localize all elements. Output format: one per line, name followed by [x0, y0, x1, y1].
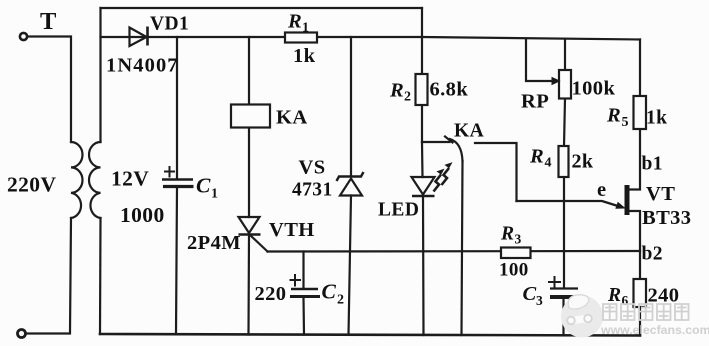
value 12V	[111, 167, 149, 191]
label R6	[607, 285, 629, 308]
svg-text:www.elecfans.com: www.elecfans.com	[600, 323, 709, 337]
wire RP wiper	[526, 39, 553, 81]
wire trigger rail	[268, 250, 641, 253]
value 220V	[7, 173, 56, 197]
svg-text:C: C	[523, 283, 537, 305]
svg-text:1k: 1k	[646, 108, 667, 129]
svg-text:RP: RP	[521, 91, 549, 113]
svg-text:5: 5	[622, 115, 629, 130]
svg-text:b1: b1	[642, 154, 663, 175]
svg-text:1000: 1000	[120, 203, 165, 227]
wire contact right lead	[475, 143, 517, 201]
svg-text:3: 3	[536, 293, 543, 308]
value 1N4007	[106, 55, 179, 77]
label VD1	[150, 14, 189, 35]
terminal T top	[20, 33, 27, 40]
svg-text:C: C	[322, 280, 337, 304]
wire R2 branch	[421, 37, 423, 74]
svg-text:2P4M: 2P4M	[187, 232, 241, 254]
label R5	[606, 105, 629, 131]
svg-text:KA: KA	[454, 121, 484, 142]
wire R6 to 0V	[639, 307, 641, 336]
svg-text:1N4007: 1N4007	[106, 55, 179, 77]
wire zener anode to 0V	[349, 196, 352, 335]
wire contact left lead	[422, 141, 450, 143]
led LED	[412, 163, 452, 196]
value 6.8k	[430, 79, 469, 101]
label C3	[523, 283, 544, 308]
value 240	[648, 285, 680, 307]
svg-text:R: R	[607, 285, 621, 306]
label KA relay coil	[276, 107, 308, 129]
value 100k	[572, 78, 616, 100]
label RP	[521, 91, 549, 113]
capacitor C2	[290, 274, 321, 297]
terminal T bottom	[18, 330, 26, 338]
resistor R2	[416, 74, 428, 105]
svg-text:BT33: BT33	[642, 207, 691, 229]
wire trigger node to R6	[639, 251, 641, 279]
svg-text:VS: VS	[299, 157, 326, 179]
label VS	[299, 157, 326, 179]
zener diode VS	[337, 172, 364, 196]
resistor R5	[634, 96, 647, 129]
capacitor C1	[162, 166, 194, 187]
svg-text:T: T	[40, 8, 57, 35]
pin e	[597, 179, 607, 201]
svg-text:KA: KA	[276, 107, 308, 129]
value 4731	[292, 180, 333, 201]
svg-text:1k: 1k	[293, 45, 316, 67]
svg-text:R: R	[389, 80, 404, 102]
label C2	[322, 280, 345, 308]
label R4	[529, 146, 552, 171]
resistor R6	[634, 279, 647, 307]
wire main rail drop to R5	[639, 40, 641, 97]
wire secondary top to +12V top rail	[99, 8, 101, 142]
diode VD1	[130, 27, 148, 47]
label R2	[389, 80, 411, 105]
resistor R3	[501, 248, 531, 259]
wire top rail drop to main rail	[421, 8, 423, 37]
label R1	[287, 11, 309, 36]
label C1	[196, 174, 218, 202]
transformer T primary winding	[71, 142, 83, 218]
wire LED cathode to 0V	[422, 197, 425, 336]
svg-text:1: 1	[211, 187, 218, 202]
svg-text:VTH: VTH	[269, 219, 315, 241]
svg-text:1: 1	[302, 21, 309, 36]
relay contact KA blade	[445, 137, 463, 162]
svg-text:R: R	[287, 11, 302, 33]
wire VTH cathode to 0V	[247, 235, 250, 335]
svg-text:4731: 4731	[292, 180, 333, 201]
svg-text:C: C	[196, 174, 211, 198]
svg-text:100k: 100k	[572, 78, 616, 100]
node T label	[40, 8, 57, 35]
wire b2 to trigger rail	[630, 211, 641, 251]
capacitor C3	[548, 276, 579, 297]
wire LED branch	[421, 142, 424, 177]
transistor VT UJT	[616, 185, 630, 215]
svg-text:100: 100	[499, 260, 529, 281]
wire C1 to 0V	[176, 187, 177, 334]
label LED	[378, 200, 419, 221]
value 1000	[120, 203, 165, 227]
thyristor VTH	[239, 217, 261, 235]
wire C2 branch	[302, 252, 304, 289]
svg-text:b2: b2	[642, 244, 663, 265]
resistor R4	[559, 146, 569, 177]
wire emitter	[517, 201, 619, 206]
value BT33	[642, 207, 691, 229]
wire R2 to contact node	[421, 105, 423, 142]
wire C3 to 0V	[562, 298, 564, 335]
transformer T secondary winding	[89, 142, 101, 218]
svg-text:4: 4	[545, 156, 552, 171]
svg-text:2: 2	[404, 90, 411, 105]
wire VTH gate	[251, 236, 268, 252]
wire relay coil branch	[248, 37, 250, 105]
pin b2	[642, 244, 663, 265]
wire RP top lead	[564, 39, 566, 70]
svg-text:VD1: VD1	[150, 14, 189, 35]
wire main dc rail	[101, 37, 641, 40]
svg-text:220V: 220V	[7, 173, 56, 197]
wire bottom rail 0V	[100, 334, 640, 336]
wire zener branch	[350, 37, 352, 176]
svg-text:R: R	[529, 146, 544, 168]
value 1k R1	[293, 45, 316, 67]
wire primary top	[28, 37, 72, 143]
value 2k	[572, 151, 594, 173]
label VT	[646, 183, 675, 205]
svg-text:LED: LED	[378, 200, 419, 221]
wire primary bottom	[27, 218, 72, 334]
label R3	[500, 224, 522, 247]
value 100	[499, 260, 529, 281]
wire top rail	[101, 7, 423, 9]
resistor R1	[285, 33, 317, 43]
svg-text:2: 2	[337, 293, 344, 308]
label VTH	[269, 219, 315, 241]
wire R4 to C3 node	[563, 177, 565, 288]
svg-text:R: R	[606, 105, 621, 127]
svg-text:2k: 2k	[572, 151, 594, 173]
value 1k R5	[646, 108, 667, 129]
wire RP to R4	[564, 99, 565, 147]
label KA contact	[454, 121, 484, 142]
potentiometer RP	[552, 70, 571, 99]
relay coil KA	[231, 105, 270, 128]
wire C1 branch top	[176, 37, 178, 179]
svg-text:R: R	[500, 224, 514, 245]
value 220 C2	[255, 283, 287, 305]
svg-text:6.8k: 6.8k	[430, 79, 469, 101]
wire secondary bottom	[99, 218, 102, 334]
svg-text:12V: 12V	[111, 167, 149, 191]
wire contact common to 0V	[462, 161, 463, 335]
svg-text:3: 3	[515, 232, 522, 247]
pin b1	[642, 154, 663, 175]
wire R5 to b1	[630, 129, 641, 190]
svg-text:VT: VT	[646, 183, 675, 205]
wire C2 to 0V	[302, 298, 305, 335]
svg-text:220: 220	[255, 283, 287, 305]
wire relay coil to VTH anode	[248, 128, 250, 218]
svg-text:e: e	[597, 179, 607, 201]
value 2P4M	[187, 232, 241, 254]
